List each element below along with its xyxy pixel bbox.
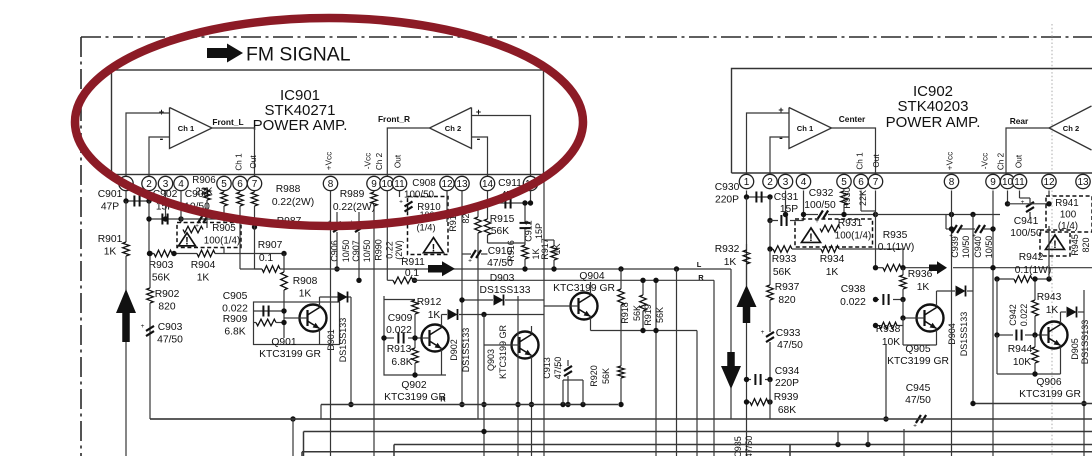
svg-text:1K: 1K [1046, 305, 1059, 316]
wire Q906 emitter [996, 335, 998, 374]
wire border dash-dot top [81, 36, 1092, 38]
svg-text:5: 5 [221, 179, 227, 190]
svg-text:R907: R907 [258, 240, 283, 251]
wire Q904 emitter [591, 330, 698, 332]
svg-text:+Vcc: +Vcc [325, 152, 334, 170]
svg-text:C932: C932 [809, 188, 834, 199]
svg-text:5: 5 [841, 177, 847, 188]
transistor Q901 [300, 305, 327, 332]
svg-text:R903: R903 [149, 260, 174, 271]
svg-text:+: + [949, 233, 953, 240]
svg-text:Rear: Rear [1010, 116, 1029, 126]
svg-text:8: 8 [949, 177, 955, 188]
svg-text:R911: R911 [401, 257, 425, 268]
svg-text:10K: 10K [882, 337, 900, 348]
svg-text:+: + [159, 107, 164, 117]
wire D905 rail [1083, 290, 1085, 456]
svg-text:820: 820 [1081, 237, 1091, 252]
svg-text:R: R [440, 395, 446, 404]
svg-text:10/50: 10/50 [961, 236, 971, 259]
resistor R935 body [876, 267, 884, 269]
svg-text:+: + [399, 199, 403, 206]
signal arrow L [428, 261, 455, 276]
svg-text:6: 6 [237, 179, 243, 190]
svg-text:13: 13 [1077, 177, 1089, 188]
diode D902 [442, 314, 448, 316]
svg-text:1K: 1K [197, 273, 210, 284]
resistor R931 dashed box [795, 219, 873, 247]
svg-text:-Vcc: -Vcc [364, 153, 373, 169]
svg-text:R915: R915 [490, 214, 515, 225]
svg-text:0.22(2W): 0.22(2W) [333, 202, 375, 213]
wire R channel [386, 191, 388, 281]
svg-text:POWER AMP.: POWER AMP. [253, 117, 348, 134]
wire pin2 down [769, 221, 771, 250]
svg-text:C938: C938 [841, 284, 866, 295]
svg-text:Ch 1: Ch 1 [178, 124, 195, 133]
svg-text:+: + [972, 233, 976, 240]
svg-text:10: 10 [381, 179, 393, 190]
transistor Q905 [917, 305, 944, 332]
svg-text:7: 7 [873, 177, 879, 188]
power arrow down [721, 352, 741, 389]
svg-text:R902: R902 [155, 289, 180, 300]
svg-text:68K: 68K [778, 405, 796, 416]
wire pin13 down [461, 191, 463, 301]
svg-text:STK40203: STK40203 [898, 98, 969, 115]
wire bus y444 [394, 444, 1092, 446]
svg-text:C931: C931 [774, 192, 799, 203]
svg-text:FM SIGNAL: FM SIGNAL [246, 44, 351, 66]
svg-text:Q902: Q902 [401, 380, 426, 391]
svg-text:!: ! [185, 236, 189, 248]
svg-text:(1/4): (1/4) [416, 223, 435, 233]
svg-text:0.1: 0.1 [259, 253, 274, 264]
svg-text:56K: 56K [773, 267, 791, 278]
op-amp U-Ch2 of IC901 [430, 108, 472, 149]
resistor R905 dashed box [177, 223, 241, 248]
svg-text:R917: R917 [540, 238, 550, 260]
wire -Vcc rail pin9 [373, 191, 375, 193]
wire IC901 ch2 -input [472, 137, 488, 176]
power arrow up [116, 289, 136, 342]
svg-text:KTC3199 GR: KTC3199 GR [384, 392, 446, 403]
svg-text:C908: C908 [412, 178, 436, 189]
wire bus y452 [302, 451, 1092, 453]
svg-text:6.8K: 6.8K [391, 357, 412, 368]
svg-text:47/50: 47/50 [777, 340, 803, 351]
wire bottom bus 405 stub [320, 405, 322, 420]
wire fold line dotted [1051, 24, 1053, 456]
svg-text:+: + [913, 423, 917, 430]
wire Q905 emitter [902, 318, 904, 345]
svg-text:R920: R920 [589, 365, 599, 387]
wire border dash-dot left [80, 37, 82, 456]
svg-text:POWER AMP.: POWER AMP. [886, 114, 981, 131]
svg-text:KTC3199 GR: KTC3199 GR [887, 356, 949, 367]
svg-text:1K: 1K [299, 289, 312, 300]
svg-text:9: 9 [371, 179, 377, 190]
svg-text:R935: R935 [883, 230, 908, 241]
wire IC902 ch1 -input [770, 137, 789, 175]
svg-text:0.022: 0.022 [222, 304, 248, 315]
red highlight ellipse [75, 18, 583, 226]
svg-text:DS1SS133: DS1SS133 [338, 318, 348, 363]
signal arrow C [929, 261, 947, 274]
svg-text:R939: R939 [774, 392, 799, 403]
svg-text:!: ! [432, 242, 436, 254]
wire pin11 down [399, 191, 401, 198]
svg-text:47/50: 47/50 [905, 395, 931, 406]
wire +Vcc rail pin8 [330, 191, 332, 456]
FM signal arrow [207, 44, 243, 63]
transistor Q905 cluster [876, 325, 880, 327]
svg-text:+Vcc: +Vcc [946, 152, 955, 170]
svg-text:-: - [477, 133, 481, 145]
op-amp U-Ch1 of IC902 [789, 108, 832, 149]
svg-text:C942: C942 [1008, 304, 1018, 326]
svg-text:C930: C930 [715, 182, 740, 193]
svg-text:10K: 10K [1013, 357, 1031, 368]
svg-text:L: L [697, 260, 702, 269]
svg-text:100/50: 100/50 [1010, 228, 1042, 239]
op-amp U-Ch1 of IC901 [170, 108, 213, 149]
pins IC901 1-15 [119, 176, 133, 190]
node L junctions [618, 266, 623, 271]
wire Q903 collector rail [517, 296, 519, 456]
wire IC901 ch1 +input [126, 113, 170, 176]
svg-text:R936: R936 [908, 269, 933, 280]
svg-text:1K: 1K [917, 282, 930, 293]
svg-text:820: 820 [158, 302, 175, 313]
svg-text:Out: Out [872, 154, 881, 168]
wire bottom bus 404 [321, 404, 618, 406]
svg-text:0.22(2W): 0.22(2W) [272, 197, 314, 208]
svg-text:10/50: 10/50 [362, 240, 372, 263]
transistor Q906 [1041, 322, 1068, 349]
wire R channel right [413, 279, 714, 281]
svg-text:47/50: 47/50 [157, 335, 183, 346]
svg-text:8: 8 [328, 179, 334, 190]
svg-text:0.022: 0.022 [840, 297, 866, 308]
svg-text:6.8K: 6.8K [224, 327, 245, 338]
wire left rail corner [150, 418, 476, 420]
svg-text:56K: 56K [152, 273, 170, 284]
resistor R988 zig [254, 191, 256, 193]
resistor R941 dashed box [1046, 196, 1092, 232]
wire branch down [292, 419, 294, 456]
wire pin4 down [180, 191, 182, 223]
svg-text:+: + [559, 363, 563, 370]
svg-text:Ch 1: Ch 1 [235, 153, 244, 171]
resistor R945 warn box [1040, 230, 1070, 256]
wire bus verticals [903, 429, 905, 456]
svg-text:820: 820 [778, 295, 795, 306]
svg-text:KTC3199 GR: KTC3199 GR [259, 349, 321, 360]
svg-text:56K: 56K [601, 368, 611, 384]
svg-text:Ch 2: Ch 2 [445, 124, 461, 133]
wire IC902 ch2 output [1006, 128, 1049, 175]
svg-text:D902: D902 [449, 339, 459, 361]
svg-text:R937: R937 [775, 282, 800, 293]
svg-text:R932: R932 [715, 244, 740, 255]
svg-text:-Vcc: -Vcc [981, 153, 990, 169]
svg-text:220P: 220P [715, 195, 739, 206]
svg-text:Front_L: Front_L [212, 117, 243, 127]
svg-text:Out: Out [249, 155, 258, 169]
svg-text:Ch 2: Ch 2 [375, 152, 384, 170]
svg-text:10/50: 10/50 [341, 240, 351, 263]
svg-text:!: ! [1053, 239, 1057, 251]
svg-text:C901: C901 [98, 189, 123, 200]
svg-text:R901: R901 [98, 234, 123, 245]
svg-text:R941: R941 [1055, 198, 1078, 209]
svg-text:Center: Center [839, 114, 866, 124]
svg-text:Q904: Q904 [579, 271, 604, 282]
diode D904 [937, 290, 956, 292]
svg-text:Front_R: Front_R [378, 114, 410, 124]
svg-text:47/50: 47/50 [744, 436, 754, 456]
wire pin5 down [223, 191, 225, 193]
wire IC901 ch1 -input [149, 137, 170, 176]
wire mid verticals [655, 280, 657, 456]
wire IC901 ch1 output [212, 128, 255, 176]
svg-text:C941: C941 [1014, 216, 1039, 227]
svg-text:47P: 47P [101, 202, 119, 213]
svg-text:Ch 2: Ch 2 [997, 152, 1006, 170]
wire D902 branch down [483, 315, 485, 456]
wire IC901 ch2 output [387, 128, 429, 176]
svg-text:!: ! [809, 232, 813, 244]
diode D901 [319, 297, 321, 302]
svg-text:Q903: Q903 [486, 349, 496, 371]
wire D904 rail [972, 215, 974, 404]
svg-text:DS1SS133: DS1SS133 [461, 328, 471, 373]
transistor Q902 [422, 325, 449, 352]
svg-text:1K: 1K [428, 310, 441, 321]
svg-text:+: + [761, 329, 765, 336]
svg-text:13: 13 [456, 179, 468, 190]
svg-text:Q901: Q901 [271, 337, 296, 348]
svg-text:+: + [468, 258, 472, 265]
svg-text:R988: R988 [276, 184, 301, 195]
svg-text:220P: 220P [775, 378, 799, 389]
wire Q904 base top [563, 379, 583, 381]
svg-text:R990: R990 [374, 239, 384, 261]
svg-text:6: 6 [858, 177, 864, 188]
svg-text:100(1/4): 100(1/4) [835, 231, 872, 242]
svg-text:R906: R906 [192, 175, 216, 186]
wire pin2 down [148, 201, 150, 254]
svg-text:R904: R904 [191, 260, 216, 271]
op-amp block IC901 outline [112, 70, 544, 175]
diode D905 [1061, 311, 1067, 313]
wire pin3 down [165, 191, 167, 220]
svg-text:Ch 1: Ch 1 [797, 124, 814, 133]
wire pin7 down [875, 191, 877, 269]
svg-text:56K: 56K [491, 226, 509, 237]
svg-text:R938: R938 [876, 324, 901, 335]
svg-text:1K: 1K [826, 267, 839, 278]
svg-text:C905: C905 [223, 291, 248, 302]
svg-text:R942: R942 [1019, 252, 1044, 263]
svg-text:0.1(1W): 0.1(1W) [1015, 265, 1052, 276]
svg-text:-: - [779, 132, 783, 144]
svg-text:R912: R912 [417, 297, 442, 308]
svg-text:+: + [1021, 199, 1025, 206]
wire bus to pin8 [876, 214, 1001, 216]
wire R907 node [240, 268, 262, 270]
svg-text:R934: R934 [820, 254, 845, 265]
svg-text:15P: 15P [780, 204, 798, 215]
wire pin1 rail down [746, 197, 748, 456]
svg-text:2: 2 [767, 177, 773, 188]
svg-text:R905: R905 [212, 223, 236, 234]
svg-text:100(1/4): 100(1/4) [204, 236, 241, 247]
svg-text:12: 12 [441, 179, 453, 190]
svg-text:R: R [698, 273, 704, 282]
pins IC902 1-13 [739, 174, 753, 188]
svg-text:Ch 2: Ch 2 [1063, 124, 1079, 133]
op-amp U-Ch2 of IC902 [1049, 106, 1092, 150]
svg-text:0.22: 0.22 [385, 241, 395, 259]
wire pin12 down [446, 191, 448, 223]
svg-text:C933: C933 [776, 328, 801, 339]
wire Q906 base [996, 334, 998, 336]
resistor R987 zig [239, 191, 241, 193]
svg-text:15P: 15P [534, 223, 544, 239]
svg-text:14: 14 [482, 179, 494, 190]
svg-text:KTC3199 GR: KTC3199 GR [1019, 389, 1081, 400]
wire L channel [255, 268, 263, 270]
wire right edge rail [543, 175, 545, 456]
svg-text:22K: 22K [195, 187, 213, 198]
svg-text:C910: C910 [488, 246, 513, 257]
svg-text:4: 4 [178, 179, 184, 190]
svg-text:DS1SS133: DS1SS133 [1080, 320, 1090, 365]
svg-text:DS1SS133: DS1SS133 [480, 285, 531, 296]
svg-text:100/50: 100/50 [804, 200, 836, 211]
svg-text:R943: R943 [1037, 292, 1062, 303]
svg-text:7: 7 [252, 179, 258, 190]
svg-text:C906: C906 [330, 240, 340, 262]
svg-text:100: 100 [1060, 210, 1077, 221]
svg-text:R931: R931 [838, 218, 863, 229]
svg-text:11: 11 [394, 179, 405, 190]
svg-text:10/50: 10/50 [984, 236, 994, 259]
svg-text:2: 2 [146, 179, 152, 190]
svg-text:Q905: Q905 [905, 344, 930, 355]
svg-text:C903: C903 [158, 322, 183, 333]
wire pin10-11 stub [1007, 191, 1009, 204]
svg-text:0.1(1W): 0.1(1W) [878, 242, 915, 253]
svg-text:Ch 1: Ch 1 [856, 152, 865, 170]
svg-text:47/50: 47/50 [487, 258, 513, 269]
svg-text:R908: R908 [293, 276, 318, 287]
svg-text:1: 1 [744, 177, 750, 188]
wire pin9 rail [992, 191, 994, 456]
svg-text:11: 11 [1014, 177, 1025, 188]
wire D901 rail [350, 297, 352, 405]
svg-text:Q906: Q906 [1036, 377, 1061, 388]
power arrow up 2 [737, 285, 757, 323]
svg-text:D903: D903 [490, 273, 515, 284]
svg-text:Out: Out [1015, 154, 1024, 168]
svg-text:1K: 1K [104, 247, 117, 258]
wire pin12 down [1048, 191, 1050, 197]
svg-text:9: 9 [990, 177, 996, 188]
svg-text:22K: 22K [858, 190, 868, 206]
wire bus y417 [150, 418, 1092, 420]
svg-text:+: + [141, 323, 145, 330]
svg-text:R919: R919 [643, 304, 653, 326]
svg-text:C913: C913 [542, 357, 552, 379]
svg-text:C945: C945 [906, 383, 931, 394]
transistor Q902 cluster box [384, 296, 446, 375]
svg-text:1K: 1K [724, 257, 737, 268]
svg-text:-: - [160, 133, 164, 145]
svg-text:0.022: 0.022 [1019, 304, 1029, 327]
wire IC902 ch1 output [832, 128, 876, 175]
svg-text:3: 3 [783, 177, 789, 188]
svg-text:D905: D905 [1070, 338, 1080, 360]
svg-text:C935: C935 [733, 436, 743, 456]
svg-text:R913: R913 [387, 344, 412, 355]
transistor Q903 [512, 332, 539, 359]
svg-text:R944: R944 [1008, 344, 1033, 355]
wire pin4 down [803, 191, 805, 221]
wire bus y403 [973, 403, 1092, 405]
svg-text:100/50: 100/50 [404, 190, 435, 201]
wire IC902 ch1 +input [747, 113, 790, 175]
svg-text:C934: C934 [775, 366, 800, 377]
svg-text:R945: R945 [1070, 234, 1080, 256]
wire pin8 rail [951, 191, 953, 456]
resistor R910 dashed box [408, 197, 449, 255]
wire IC901 ch2 +input [472, 116, 531, 177]
wire bus y431 [304, 431, 1092, 433]
svg-text:R909: R909 [223, 314, 248, 325]
svg-text:R989: R989 [340, 189, 365, 200]
transistor Q901 box [254, 302, 340, 345]
svg-text:DS1SS133: DS1SS133 [959, 312, 969, 357]
op-amp block IC902 outline [732, 69, 1092, 174]
svg-text:Out: Out [394, 154, 403, 168]
wire pin3 stub [785, 191, 787, 215]
svg-text:KTC3199 GR: KTC3199 GR [498, 324, 508, 379]
svg-text:12: 12 [1043, 177, 1055, 188]
svg-text:4: 4 [801, 177, 807, 188]
svg-text:R933: R933 [772, 254, 797, 265]
svg-text:C909: C909 [388, 313, 413, 324]
node L-rail junction [290, 416, 295, 421]
